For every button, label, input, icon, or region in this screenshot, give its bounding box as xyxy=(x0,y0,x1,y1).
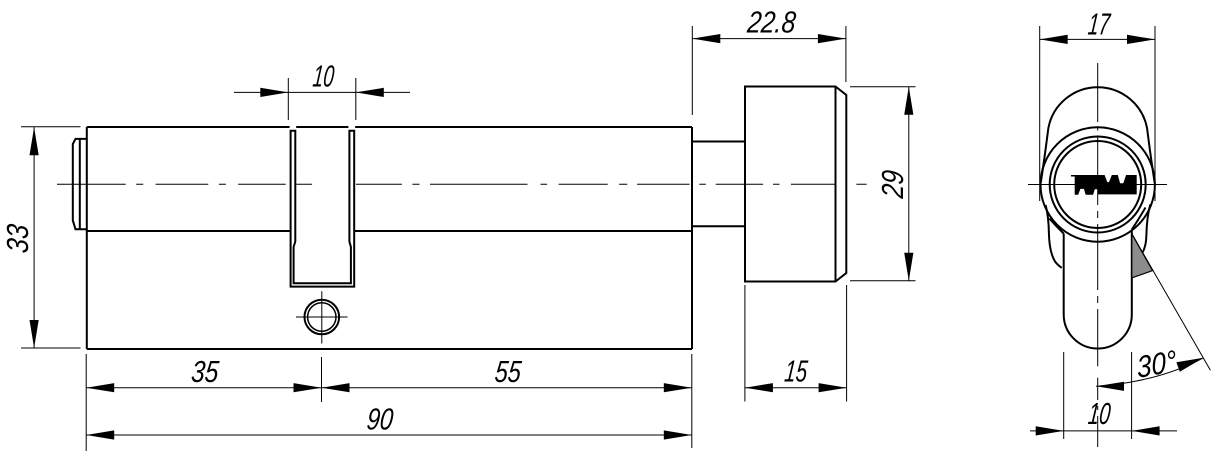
svg-text:10: 10 xyxy=(311,59,336,93)
svg-text:90: 90 xyxy=(365,403,395,437)
dimension 15 (knob width, below) xyxy=(745,285,847,402)
fixing screw hole (double circle) xyxy=(305,300,340,335)
keyway profile (black) xyxy=(1071,175,1137,195)
dimension 10 (bottom width) xyxy=(1030,352,1177,439)
centerline axis (dash-dot) xyxy=(57,183,867,185)
plug face circle xyxy=(1054,141,1141,228)
svg-text:55: 55 xyxy=(493,355,523,389)
svg-text:22.8: 22.8 xyxy=(745,6,797,40)
thumbturn neck xyxy=(692,142,745,227)
dimension 22.8 (body end to knob face) xyxy=(692,26,846,115)
dimension 17 (top width) xyxy=(1040,26,1155,201)
30 degree slant line xyxy=(1132,234,1210,370)
dimension 33 (body height, left) xyxy=(21,127,81,348)
svg-text:17: 17 xyxy=(1087,7,1113,41)
svg-text:33: 33 xyxy=(1,223,35,255)
screw hole crosshair xyxy=(296,291,348,343)
body shoulders (right) xyxy=(1132,205,1151,253)
cam tip (gray triangle) xyxy=(1132,234,1153,278)
horizontal centerline xyxy=(1028,184,1167,186)
dimension 90 (total body length) xyxy=(86,434,692,436)
dimension 29 (knob diameter, right) xyxy=(850,87,916,281)
barrel lower edge line xyxy=(87,230,692,232)
thumbturn knob xyxy=(745,87,846,282)
lower body (narrow, rounded bottom) xyxy=(1064,230,1132,349)
front chamfer dome xyxy=(1041,87,1155,183)
svg-text:15: 15 xyxy=(783,355,810,389)
cam opening U-cutout xyxy=(291,231,355,287)
vertical centerline (dash-dot) xyxy=(1097,63,1099,447)
plug front protrusion (left chamfered tip) xyxy=(73,139,87,229)
cam ring grooves (recessed ring slots) xyxy=(291,131,355,231)
svg-text:30°: 30° xyxy=(1136,344,1178,385)
plug rim circle xyxy=(1050,137,1146,233)
cylinder body outline xyxy=(87,127,692,349)
barrel circle d17 xyxy=(1041,127,1155,241)
dimension 10 (cam ring width, top) xyxy=(234,78,410,120)
dimension 55 (right half length) xyxy=(322,354,692,448)
dimension 35 (left half length) xyxy=(86,354,321,451)
svg-text:10: 10 xyxy=(1087,397,1113,431)
body shoulders (left) xyxy=(1046,205,1064,268)
svg-text:29: 29 xyxy=(876,169,910,201)
svg-text:35: 35 xyxy=(190,355,221,389)
30 degree angle arc xyxy=(1096,358,1204,387)
